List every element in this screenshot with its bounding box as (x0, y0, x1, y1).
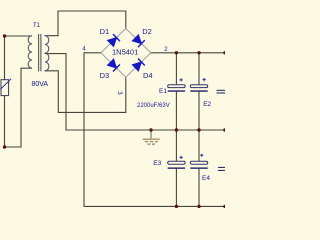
svg-text:T1: T1 (33, 23, 41, 29)
svg-text:E3: E3 (153, 160, 161, 167)
svg-text:E2: E2 (203, 101, 211, 108)
svg-text:D2: D2 (142, 27, 152, 36)
svg-text:E4: E4 (202, 175, 210, 182)
svg-text:1N5401: 1N5401 (112, 48, 138, 57)
svg-text:D3: D3 (100, 71, 110, 80)
svg-text:E1: E1 (159, 88, 167, 95)
svg-text:80VA: 80VA (32, 81, 49, 88)
svg-text:D1: D1 (100, 27, 110, 36)
svg-text:D4: D4 (143, 71, 153, 80)
svg-text:2200uF/63V: 2200uF/63V (137, 103, 170, 109)
